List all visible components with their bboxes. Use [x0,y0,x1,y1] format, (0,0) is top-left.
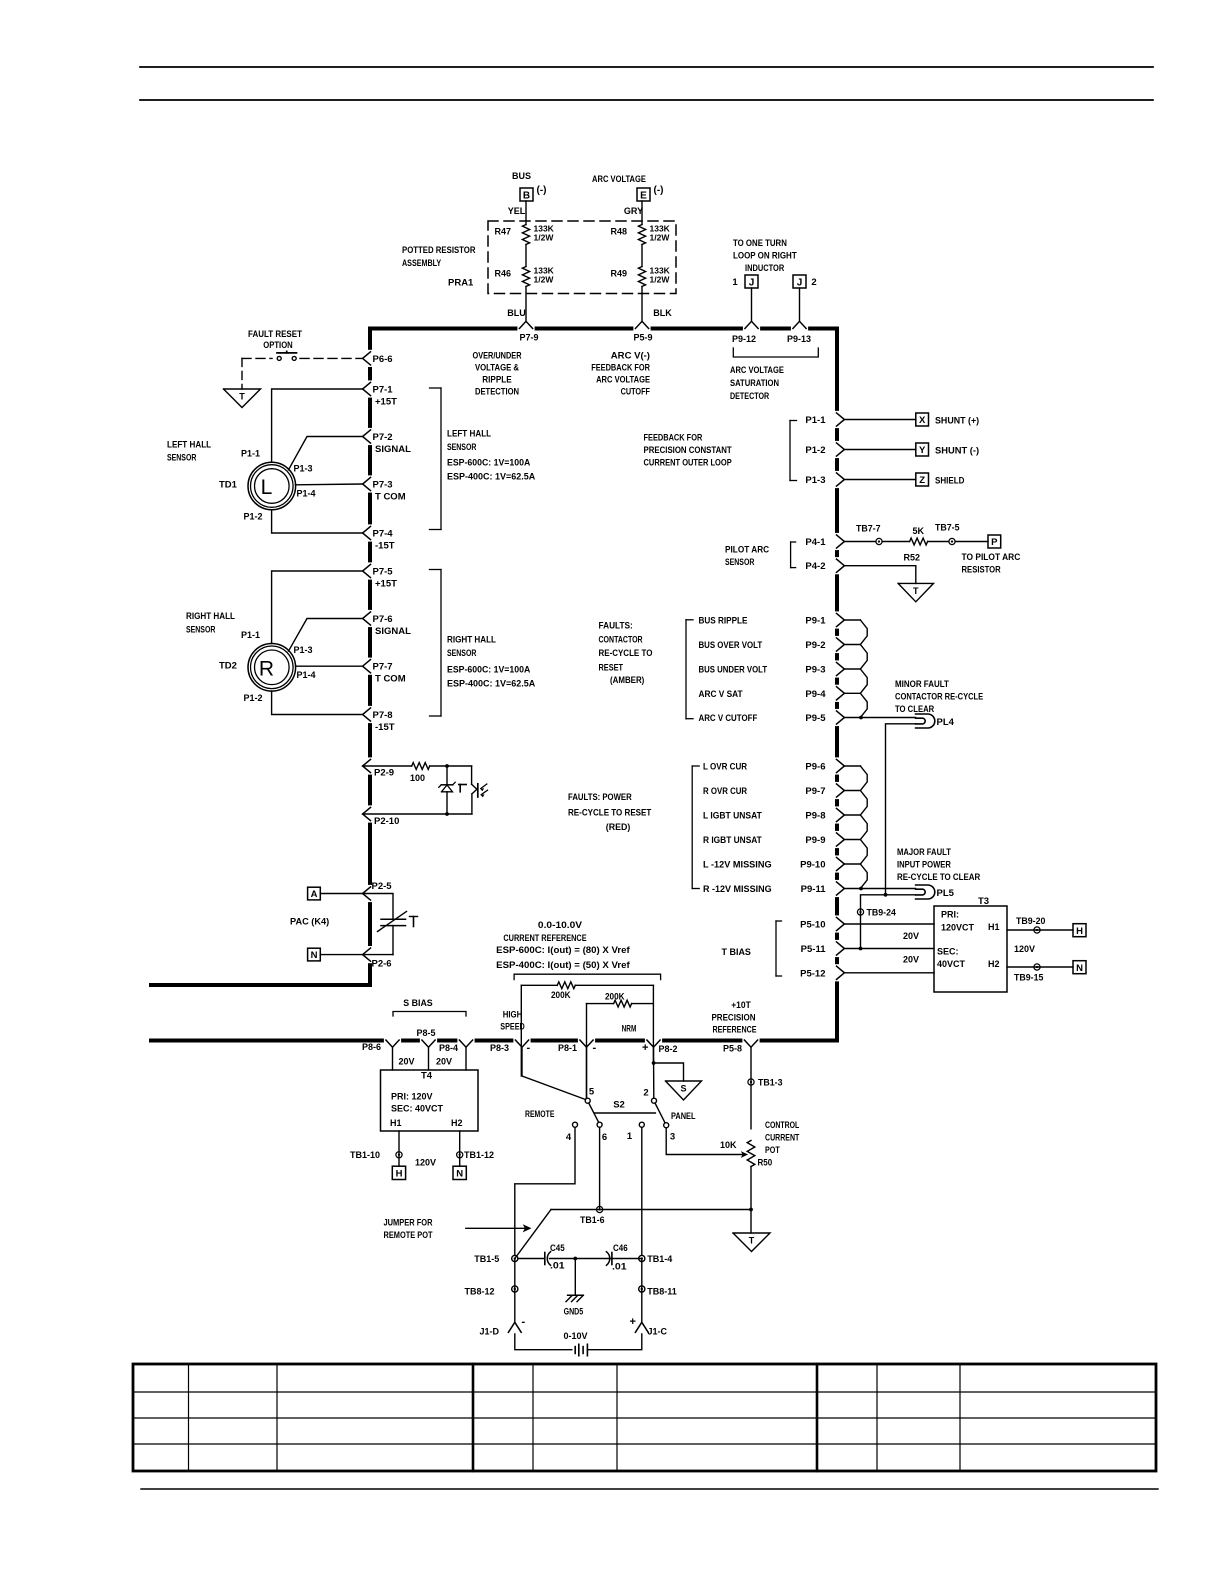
svg-text:20V: 20V [436,1057,452,1067]
svg-text:R47: R47 [494,227,511,237]
svg-text:L: L [261,476,273,499]
svg-text:R50: R50 [758,1158,773,1169]
wire dashed to ground [241,358,243,389]
wire P4-2 to ground [844,566,915,584]
svg-text:P9-11: P9-11 [801,884,827,895]
pin P2-5 [363,887,371,900]
wire J2 to P9-13 [799,288,801,321]
svg-text:SENSOR: SENSOR [167,453,196,464]
wire P5-11 to T3 [844,948,934,950]
lamp PL5 [916,885,935,899]
svg-text:P8-6: P8-6 [362,1042,381,1052]
wire P7-6 to TD2 P1-3 [289,619,363,652]
svg-text:P5-11: P5-11 [801,944,827,955]
svg-text:POT: POT [765,1145,780,1156]
terminal TB1-12 [457,1152,463,1158]
terminal TB7-7 [876,538,882,544]
pin P1-2 [837,443,845,456]
node junction zener top [445,764,449,768]
svg-text:P7-9: P7-9 [519,333,538,343]
wire junction to GND5 [574,1259,576,1296]
svg-text:P7-1: P7-1 [373,385,394,396]
switch arm 2-3 [655,1103,665,1123]
terminal TB1-10 [396,1152,402,1158]
svg-text:RE-CYCLE TO: RE-CYCLE TO [599,648,653,659]
pin P4-2 [837,559,845,572]
resistor 200K lower [587,1003,614,1005]
pin P9-12 [745,321,758,328]
bracket faults 1 [685,620,687,719]
svg-text:P5-12: P5-12 [800,968,825,979]
svg-text:R: R [259,657,274,680]
svg-text:Z: Z [919,475,925,486]
pin P5-10 [837,917,845,930]
pin P8-2 [647,1040,660,1047]
svg-text:P5-10: P5-10 [800,920,825,931]
svg-text:40VCT: 40VCT [937,959,966,969]
wire P7-2 to TD1 P1-3 [289,437,363,470]
svg-text:SENSOR: SENSOR [447,442,476,453]
page header rule 2 [140,99,1153,101]
svg-text:P5-9: P5-9 [633,333,652,343]
svg-text:ARC V(-): ARC V(-) [611,351,650,362]
bracket left hall sensor [440,388,442,530]
svg-text:T: T [239,392,245,402]
svg-text:N: N [311,950,318,961]
svg-text:B: B [523,191,530,202]
wire PL4 return [886,724,916,895]
svg-text:ARC V SAT: ARC V SAT [699,689,743,700]
svg-text:OPTION: OPTION [263,340,293,351]
wire contact 1 down [641,1127,643,1255]
pin P8-3 [515,1040,528,1047]
wire C45 to junction [550,1258,642,1260]
svg-text:4: 4 [566,1132,572,1143]
svg-text:TD2: TD2 [219,661,237,672]
svg-text:TB8-12: TB8-12 [464,1287,494,1297]
surge suppressor [363,894,393,920]
wire 200K right legs [652,985,654,1063]
pin P2-10 [363,807,371,820]
svg-text:H2: H2 [451,1118,463,1128]
wire bottom bus [149,1039,384,1043]
svg-text:T COM: T COM [375,674,406,685]
gamma label [459,784,466,786]
svg-text:LOOP ON RIGHT: LOOP ON RIGHT [733,251,797,262]
svg-text:TB9-15: TB9-15 [1014,973,1044,984]
potted resistor assembly PRA1 dashed box [488,221,676,294]
wire P4-1 to TB7-7 [844,541,876,543]
svg-text:200K: 200K [551,990,571,1001]
svg-text:R52: R52 [904,553,921,563]
svg-text:R -12V MISSING: R -12V MISSING [703,884,772,895]
pin P7-5 [363,564,371,577]
svg-text:P9-8: P9-8 [805,811,825,822]
pin P1-3 [837,473,845,486]
wire PL5 return to TB9-24 [861,895,916,949]
wire P5-10 to T3 [844,923,934,925]
svg-text:100: 100 [410,773,425,783]
pin P8-4 [459,1040,472,1047]
svg-text:PILOT ARC: PILOT ARC [725,545,769,556]
wire TB1-4 to J1-C [641,1259,643,1323]
svg-text:BLU: BLU [507,308,526,318]
svg-text:+15T: +15T [375,579,397,590]
svg-text:TB9-24: TB9-24 [867,908,897,919]
wire P8-3 to contact 5 [522,1047,586,1099]
svg-text:P1-3: P1-3 [805,475,825,486]
svg-text:P7-4: P7-4 [373,529,394,540]
pin P5-12 [837,966,845,979]
wire T4 H2 to N [459,1131,461,1166]
svg-text:RE-CYCLE TO RESET: RE-CYCLE TO RESET [568,808,651,819]
wire P9-11 to PL5 [860,888,915,890]
svg-text:R49: R49 [610,269,627,279]
jumper arrow [466,1227,526,1229]
junction to S ground [652,1061,656,1065]
svg-text:1/2W: 1/2W [650,275,671,285]
svg-text:(-): (-) [654,185,664,196]
svg-text:H: H [1076,926,1083,937]
svg-text:RESISTOR: RESISTOR [962,565,1001,576]
svg-text:BUS UNDER VOLT: BUS UNDER VOLT [699,665,768,676]
svg-text:SHIELD: SHIELD [935,476,965,487]
svg-text:N: N [1076,963,1083,974]
svg-text:200K: 200K [605,992,625,1003]
jumper diagonal [515,1210,551,1259]
svg-text:3: 3 [670,1132,675,1143]
capacitor C45 .01 [518,1258,545,1260]
svg-text:CURRENT OUTER LOOP: CURRENT OUTER LOOP [644,458,733,469]
svg-text:P9-10: P9-10 [800,860,825,871]
svg-text:P2-5: P2-5 [372,881,393,892]
pin P1-1 [837,413,845,426]
svg-text:P2-9: P2-9 [374,768,394,779]
svg-text:LEFT HALL: LEFT HALL [447,429,491,440]
pin P2-9 [363,759,371,772]
wire bottom-left branch [149,983,372,987]
svg-text:(-): (-) [537,185,547,196]
svg-text:+: + [642,1042,648,1054]
svg-text:VOLTAGE &: VOLTAGE & [475,363,519,374]
ground T fault reset [224,389,261,408]
page footer rule [141,1488,1158,1490]
connector A box [308,887,321,900]
svg-text:P1-3: P1-3 [294,645,313,655]
svg-text:120V: 120V [415,1158,436,1168]
terminal TB7-5 [928,541,949,543]
svg-text:RIGHT HALL: RIGHT HALL [186,611,235,622]
svg-text:S: S [680,1084,686,1094]
svg-text:TB7-5: TB7-5 [935,523,960,534]
svg-text:SENSOR: SENSOR [186,625,215,636]
svg-text:.01: .01 [550,1261,565,1272]
svg-text:6: 6 [602,1132,607,1143]
svg-text:P8-1: P8-1 [558,1043,577,1053]
transformer T4 [381,1070,479,1131]
svg-text:CONTROL: CONTROL [765,1120,799,1131]
svg-text:ESP-400C: I(out) = (50) X Vref: ESP-400C: I(out) = (50) X Vref [496,960,630,971]
wire TB1-5 to J1-D [514,1259,516,1323]
bracket T bias [775,921,777,976]
bracket arc voltage saturation detector [733,348,818,357]
pushbutton switch [242,357,272,359]
svg-text:TB7-7: TB7-7 [856,524,881,535]
svg-text:C45: C45 [550,1243,565,1254]
svg-text:P8-4: P8-4 [439,1043,458,1053]
svg-text:P1-3: P1-3 [294,464,313,474]
svg-text:P5-8: P5-8 [723,1044,742,1054]
pin P5-11 [837,942,845,955]
connector N box [1073,961,1086,974]
wire contact 4 down [515,1127,575,1255]
svg-text:E: E [640,191,647,202]
terminal TB1-6 [597,1206,603,1212]
svg-text:T COM: T COM [375,492,406,503]
wire TB1-6 to pot ground [551,1209,751,1211]
terminal TB9-20 [1034,927,1040,933]
svg-text:RIGHT HALL: RIGHT HALL [447,635,496,646]
page header rule 1 [140,66,1153,68]
wire P1-2 to Y [844,449,915,451]
pin P7-3 [363,477,371,490]
wire P7-5 to TD2 P1-1 [272,571,363,644]
svg-text:R IGBT UNSAT: R IGBT UNSAT [703,835,762,846]
svg-text:P9-12: P9-12 [732,334,756,344]
svg-text:MINOR FAULT: MINOR FAULT [895,679,949,690]
wire P8-1 to contact 5 [586,1047,588,1098]
pin P8-5 [422,1040,435,1047]
wire P1-3 to Z [844,479,915,481]
svg-text:BUS RIPPLE: BUS RIPPLE [699,616,748,627]
T-bar label [410,916,418,918]
svg-text:P7-8: P7-8 [373,710,393,721]
svg-text:1/2W: 1/2W [650,233,671,243]
pin P5-9 [635,321,648,328]
wire TD1 P1-2 to P7-4 [272,510,363,533]
wire A to P2-5 [320,893,362,895]
svg-text:1/2W: 1/2W [534,275,555,285]
potentiometer R50 10K [747,1141,755,1167]
svg-text:TB9-20: TB9-20 [1016,916,1045,927]
pin J1-C [635,1322,648,1332]
svg-text:ESP-600C: I(out) = (80) X Vref: ESP-600C: I(out) = (80) X Vref [496,945,630,956]
pin P8-1 [580,1040,593,1047]
svg-text:P4-1: P4-1 [805,537,826,548]
svg-text:BUS OVER VOLT: BUS OVER VOLT [699,640,763,651]
svg-text:P1-2: P1-2 [243,693,262,703]
ground T control pot [733,1233,770,1252]
pin P7-1 [363,382,371,395]
svg-text:CURRENT REFERENCE: CURRENT REFERENCE [503,933,586,944]
pin P7-6 [363,612,371,625]
svg-text:P9-4: P9-4 [805,689,826,700]
svg-text:H1: H1 [390,1118,402,1128]
pin P7-4 [363,526,371,539]
resistor 100 [363,765,412,767]
wire R47-R46 [525,245,527,267]
svg-text:CURRENT: CURRENT [765,1133,799,1144]
svg-text:A: A [311,889,318,900]
connector N box bottom [453,1166,466,1179]
svg-text:P9-7: P9-7 [805,786,825,797]
svg-text:DETECTOR: DETECTOR [730,391,769,402]
svg-text:5K: 5K [913,526,925,536]
svg-text:PRECISION CONSTANT: PRECISION CONSTANT [644,445,732,456]
svg-text:LEFT HALL: LEFT HALL [167,440,211,451]
svg-text:P2-10: P2-10 [374,816,399,827]
svg-text:BLK: BLK [653,308,672,318]
wire N to P2-6 [320,954,362,956]
resistor R48 133K 1/2W [638,225,645,245]
resistor R47 133K 1/2W [522,225,529,245]
svg-text:TB1-3: TB1-3 [758,1078,783,1089]
svg-text:ESP-600C: 1V=100A: ESP-600C: 1V=100A [447,665,530,676]
pin P5-8 [744,1040,757,1047]
svg-text:TB1-5: TB1-5 [474,1254,499,1264]
wire E to R48 [641,201,643,225]
wire contact 3 to pot wiper [666,1128,742,1155]
revision table [133,1364,1156,1471]
svg-text:P9-1: P9-1 [805,616,826,627]
svg-text:Y: Y [919,445,926,456]
wire R48-R49 [641,245,643,267]
svg-text:RE-CYCLE TO CLEAR: RE-CYCLE TO CLEAR [897,872,980,883]
wire P8-5 to T4 [428,1047,430,1070]
connector Z SHIELD [916,473,929,486]
svg-text:2: 2 [643,1088,648,1099]
wire P7-1 to TD1 P1-1 [272,389,363,462]
svg-text:20V: 20V [399,1057,415,1067]
svg-text:TB1-4: TB1-4 [647,1254,672,1264]
wire P9-5 to PL4 [860,717,915,719]
svg-text:FAULT RESET: FAULT RESET [248,329,302,340]
zener diode [446,766,448,785]
svg-text:H2: H2 [988,959,1000,969]
svg-text:RIPPLE: RIPPLE [482,375,511,386]
fault chain 1 [844,619,860,621]
connector J pin 2 [793,275,806,288]
wire P1-1 to X [844,419,915,421]
connector X SHUNT(+) [916,413,929,426]
terminal TB1-5 [512,1255,518,1261]
svg-text:J1-D: J1-D [479,1327,499,1337]
svg-text:ESP-600C: 1V=100A: ESP-600C: 1V=100A [447,458,530,469]
svg-text:T BIAS: T BIAS [722,947,751,958]
svg-text:(RED): (RED) [606,822,631,833]
terminal TB9-15 [1034,964,1040,970]
svg-text:P1-4: P1-4 [297,489,316,499]
wire top bus [368,327,517,331]
svg-text:120V: 120V [1014,944,1035,954]
wire B to R47 [525,201,527,225]
wire R49 to P5-9 BLK [641,287,643,322]
terminal TB8-11 ring [639,1286,645,1292]
svg-text:P4-2: P4-2 [805,561,825,572]
svg-text:REFERENCE: REFERENCE [712,1025,756,1036]
svg-text:J: J [797,278,803,289]
svg-text:REMOTE POT: REMOTE POT [384,1230,433,1241]
lamp PL4 [916,714,935,728]
svg-text:.01: .01 [612,1262,627,1273]
svg-text:0-10V: 0-10V [563,1331,587,1341]
svg-text:SEC: 40VCT: SEC: 40VCT [391,1104,444,1114]
capacitor C46 .01 [606,1252,609,1266]
svg-text:ARC VOLTAGE: ARC VOLTAGE [730,365,784,376]
svg-text:SENSOR: SENSOR [447,648,476,659]
svg-text:H1: H1 [988,922,1000,932]
svg-text:GND5: GND5 [564,1306,584,1317]
wire contact 6 to TB1-6 [599,1127,601,1209]
svg-text:R46: R46 [494,269,511,279]
connector H box [1073,924,1086,937]
svg-text:POTTED RESISTOR: POTTED RESISTOR [402,245,476,256]
svg-text:L IGBT UNSAT: L IGBT UNSAT [703,811,762,822]
bracket faults 2 [691,766,693,889]
svg-text:ASSEMBLY: ASSEMBLY [402,258,442,269]
svg-text:-: - [527,1042,531,1054]
svg-text:NRM: NRM [622,1024,637,1035]
svg-text:P8-2: P8-2 [659,1044,678,1054]
svg-text:YEL: YEL [508,206,526,216]
svg-text:CONTACTOR RE-CYCLE: CONTACTOR RE-CYCLE [895,692,983,703]
wire pot to ground junction [750,1167,752,1210]
svg-text:-: - [522,1316,526,1328]
svg-text:SEC:: SEC: [937,947,959,957]
ground S [666,1081,702,1100]
svg-text:P1-2: P1-2 [243,512,262,522]
svg-text:TB1-12: TB1-12 [464,1150,494,1160]
svg-text:PANEL: PANEL [671,1111,696,1122]
svg-text:PRI:: PRI: [941,910,959,920]
wire J1-D to battery [515,1334,572,1350]
svg-text:T: T [913,586,919,596]
svg-text:REMOTE: REMOTE [525,1109,554,1120]
wire left bus [368,327,372,350]
svg-text:J: J [749,278,755,289]
svg-text:T4: T4 [421,1071,433,1082]
wire P7-3 to TD1 P1-4 [296,483,363,486]
pin P7-8 [363,708,371,721]
svg-text:C46: C46 [613,1243,628,1254]
wire P2-10 return [363,813,472,815]
svg-text:1: 1 [627,1131,633,1142]
svg-text:BUS: BUS [512,171,531,181]
wire P8-4 to T4 [465,1047,467,1070]
wire 200K upper left leg [520,985,522,1076]
wire T4 H1 to H [398,1131,400,1166]
terminal TB1-3 [748,1079,754,1085]
ground T pilot arc [898,583,933,601]
svg-text:P9-13: P9-13 [787,334,811,344]
opto LED [471,766,473,784]
svg-text:P9-6: P9-6 [805,762,825,773]
wire P8-2 to contact 2 [653,1047,655,1098]
svg-text:P8-3: P8-3 [490,1043,509,1053]
wire P5-8 down to pot [750,1047,752,1129]
svg-text:P6-6: P6-6 [373,354,393,365]
svg-text:P7-6: P7-6 [373,614,393,625]
svg-text:20V: 20V [903,955,919,965]
pin P7-2 [363,430,371,443]
svg-text:S BIAS: S BIAS [403,998,432,1009]
svg-text:SIGNAL: SIGNAL [375,444,411,455]
svg-text:PL5: PL5 [937,888,955,899]
svg-text:P1-4: P1-4 [297,670,316,680]
ground GND5 [568,1294,584,1296]
pin P2-6 [363,948,371,961]
wire T3 H2 to N [1007,966,1073,968]
